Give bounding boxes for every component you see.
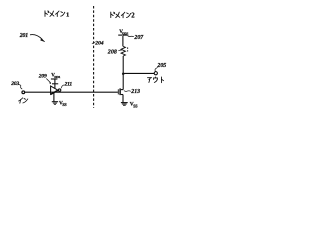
svg-text:207: 207 xyxy=(133,35,144,41)
svg-text:SS: SS xyxy=(62,103,66,107)
svg-text:211: 211 xyxy=(64,82,73,88)
svg-text:2: 2 xyxy=(131,13,135,20)
svg-text:209: 209 xyxy=(38,74,47,80)
svg-text:213: 213 xyxy=(130,89,140,95)
svg-text:208: 208 xyxy=(107,50,117,56)
svg-text:1: 1 xyxy=(66,11,69,18)
svg-text:203: 203 xyxy=(10,81,19,87)
svg-text:205: 205 xyxy=(156,63,166,69)
svg-text:201: 201 xyxy=(19,33,28,39)
svg-text:204: 204 xyxy=(94,40,104,46)
svg-text:SS: SS xyxy=(133,104,137,108)
svg-text:DD2: DD2 xyxy=(122,32,129,36)
svg-text:DD1: DD1 xyxy=(54,75,61,79)
